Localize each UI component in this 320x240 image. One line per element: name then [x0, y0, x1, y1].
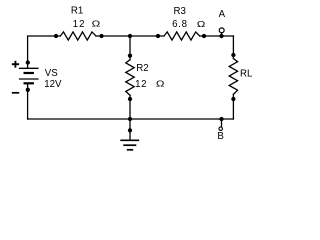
- node dot ground stub: [128, 128, 132, 132]
- wire R2 branch lower: [129, 95, 131, 119]
- node dot A junction: [219, 34, 223, 38]
- ground symbol bars: [120, 140, 139, 150]
- node dot R2 bottom: [128, 97, 132, 101]
- battery VS plates: [19, 68, 39, 83]
- resistor R3: [164, 32, 200, 40]
- svg-text:B: B: [217, 131, 223, 142]
- node A stub: [221, 33, 223, 36]
- svg-text:RL: RL: [240, 69, 253, 80]
- node dot RL top: [231, 53, 235, 57]
- svg-text:12: 12: [73, 19, 86, 30]
- node dot bottom rail R2: [128, 117, 132, 121]
- svg-text:R3: R3: [174, 6, 186, 17]
- wire bottom rail: [28, 118, 234, 120]
- resistor R2: [126, 60, 134, 96]
- svg-text:12: 12: [135, 79, 147, 90]
- wire top rail right segment: [200, 35, 234, 37]
- wire top rail middle segment: [96, 35, 164, 37]
- battery plus sign: [12, 61, 19, 68]
- resistor R1: [60, 32, 96, 40]
- ground stub: [129, 119, 131, 140]
- svg-text:12V: 12V: [44, 79, 62, 90]
- svg-text:Ω: Ω: [92, 20, 101, 29]
- svg-text:Ω: Ω: [156, 80, 165, 89]
- svg-text:R2: R2: [136, 63, 148, 74]
- node dot B junction: [219, 117, 223, 121]
- svg-text:VS: VS: [45, 68, 58, 79]
- node dot R1 right: [99, 34, 103, 38]
- wire top rail left segment: [28, 36, 61, 68]
- svg-text:A: A: [219, 9, 226, 20]
- svg-text:R1: R1: [71, 5, 83, 16]
- resistor RL: [229, 59, 237, 95]
- wire right branch lower: [232, 94, 234, 119]
- wire R2 branch upper: [129, 36, 131, 60]
- wire right branch upper: [232, 36, 234, 59]
- node dot R1 left: [54, 34, 58, 38]
- wire left branch lower: [27, 83, 29, 119]
- node dot R3 right: [202, 34, 206, 38]
- node dot RL bottom: [231, 97, 235, 101]
- node dot R3 left: [156, 34, 160, 38]
- svg-text:Ω: Ω: [197, 20, 206, 29]
- node dot R2 top junction: [128, 34, 132, 38]
- terminal A circle: [219, 28, 224, 33]
- node dot battery top: [26, 60, 30, 64]
- terminal B circle: [219, 127, 223, 131]
- node dot R2 top: [128, 53, 132, 57]
- battery minus sign: [12, 92, 19, 94]
- node B stub: [221, 119, 223, 126]
- node dot battery bottom: [26, 88, 30, 92]
- svg-text:6.8: 6.8: [172, 19, 188, 30]
